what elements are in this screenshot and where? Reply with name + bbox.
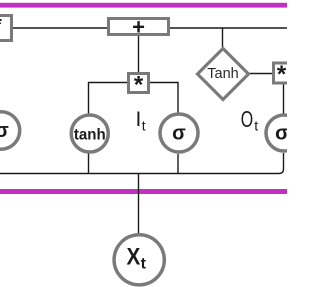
svg-text:X: X: [127, 243, 141, 270]
magenta highlight line top: [0, 3, 287, 8]
wire: sigma circle down to bus: [177, 154, 179, 174]
svg-text:σ: σ: [275, 123, 287, 145]
sigma circle left-edge (cut off): [0, 112, 20, 149]
wire: bus down to Xt circle: [138, 174, 140, 234]
wire: multiply box left to tanh circle: [89, 83, 128, 115]
sigma circle center: [160, 114, 198, 152]
svg-text:t: t: [254, 118, 258, 134]
multiply box U1 (center): [129, 72, 149, 99]
svg-text:t: t: [142, 118, 146, 134]
tanh circle: [71, 115, 108, 152]
svg-text:O: O: [241, 106, 253, 132]
svg-text:*: *: [0, 14, 2, 36]
wire: multiply box right to sigma circle: [150, 83, 178, 114]
wire: right multiply box down to right sigma circle: [283, 85, 285, 115]
sigma circle right-edge (cut off): [266, 115, 302, 151]
svg-text:*: *: [134, 72, 144, 99]
svg-text:t: t: [141, 256, 147, 273]
svg-text:*: *: [277, 61, 287, 88]
svg-text:σ: σ: [0, 120, 9, 142]
wire: junction down to Tanh diamond: [222, 28, 224, 49]
wire: left box to plus box: [11, 27, 107, 29]
wire: plus box to right edge: [170, 27, 287, 29]
multiply box right-edge: [274, 61, 292, 88]
multiply box left-edge (cut off): [0, 14, 12, 41]
svg-text:tanh: tanh: [74, 127, 106, 144]
wire: plus box down to multiply box: [138, 36, 140, 72]
Xt input circle: [114, 235, 164, 285]
svg-text:Tanh: Tanh: [207, 66, 238, 82]
wire: tanh circle down to bus: [88, 154, 90, 174]
magenta highlight line middle: [0, 189, 287, 194]
svg-text:+: +: [132, 14, 145, 39]
Tanh diamond: [198, 49, 249, 100]
plus box: [109, 14, 169, 39]
svg-text:I: I: [136, 108, 142, 131]
wire: Tanh diamond to right multiply box: [249, 73, 272, 75]
svg-text:σ: σ: [172, 123, 186, 145]
wire: bottom bus with rounded right corner up to right sigma: [0, 153, 284, 174]
